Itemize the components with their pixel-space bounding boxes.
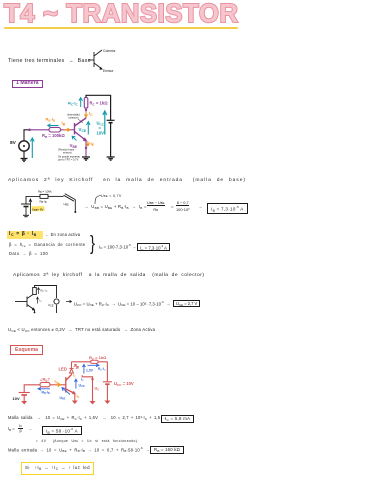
wire collector up bbox=[85, 108, 87, 118]
UBB arrow bbox=[29, 199, 32, 214]
ground middle red bbox=[90, 401, 96, 405]
intro line bbox=[8, 58, 91, 64]
battery Ucc red bbox=[103, 382, 112, 384]
boxed IB result bbox=[207, 203, 248, 214]
wire emitter down red bbox=[74, 394, 76, 401]
svg-text:UCC = 10V: UCC = 10V bbox=[114, 381, 134, 387]
svg-text:RC = 1kΩ: RC = 1kΩ bbox=[89, 355, 107, 361]
ground right red bbox=[104, 401, 110, 405]
mini transistor sketch bbox=[88, 47, 138, 75]
transistor (three terminals sketch) bbox=[88, 50, 102, 69]
arrow Ic blue top bbox=[88, 364, 100, 367]
block beta bbox=[7, 231, 43, 240]
equation 2 bbox=[74, 300, 170, 306]
title underline bbox=[4, 27, 238, 29]
bottom equation line 4 bbox=[8, 446, 150, 452]
svg-text:Colector: Colector bbox=[103, 49, 116, 53]
svg-text:IE: IE bbox=[77, 394, 80, 399]
blue arrow 1,5V bbox=[83, 364, 86, 373]
wire down right bbox=[74, 200, 76, 212]
top rail red bbox=[72, 361, 108, 363]
box 1 Manera bbox=[12, 80, 43, 89]
wire resistor to base bbox=[50, 384, 66, 386]
ground emitter bbox=[82, 157, 90, 160]
svg-text:UC: UC bbox=[95, 387, 100, 392]
svg-text:IC: IC bbox=[81, 377, 84, 382]
box Esquema bbox=[10, 345, 43, 355]
svg-text:UCE: UCE bbox=[48, 303, 54, 308]
arrow Uce blue bbox=[75, 379, 78, 388]
battery 10V left bbox=[19, 393, 30, 396]
section heading salida bbox=[13, 273, 205, 278]
svg-text:RB·IB: RB·IB bbox=[46, 117, 57, 123]
svg-text:por lo TRT ≈ 0,7V: por lo TRT ≈ 0,7V bbox=[58, 157, 79, 161]
wire top rail bbox=[86, 95, 111, 120]
svg-text:RB = 100kΩ: RB = 100kΩ bbox=[42, 133, 65, 139]
battery Ucc bbox=[107, 120, 115, 122]
svg-text:RB·IB: RB·IB bbox=[40, 200, 47, 205]
wire to resistor RB bbox=[30, 129, 50, 131]
resistor RC red bbox=[91, 360, 98, 363]
arrow IB orange red circuit bbox=[55, 383, 60, 387]
ground emitter red bbox=[72, 401, 78, 405]
svg-text:UBE: UBE bbox=[60, 396, 66, 401]
bottom equation line 2 bbox=[8, 426, 15, 431]
resistor sketch3 bbox=[33, 288, 37, 295]
svg-text:RB·IB: RB·IB bbox=[42, 391, 50, 396]
Uc measure line bbox=[82, 375, 92, 401]
svg-text:10V: 10V bbox=[13, 396, 20, 401]
svg-text:RC = 1kΩ: RC = 1kΩ bbox=[90, 101, 109, 107]
arrow Rc·Ic sketch3 bbox=[37, 288, 39, 294]
tiny note line 3 bbox=[36, 439, 139, 443]
svg-text:IB: IB bbox=[62, 121, 66, 127]
arrow right bbox=[66, 300, 71, 302]
bottom equation line 1 bbox=[8, 415, 167, 420]
svg-text:IC: IC bbox=[40, 299, 43, 304]
source to ground bbox=[56, 305, 58, 313]
arrow Rb voltage (teal, left) bbox=[48, 124, 59, 127]
source circle sketch3 bbox=[54, 299, 59, 304]
arrow Rb·Ib blue bbox=[38, 387, 50, 390]
arrow Vbe (teal, toward base) bbox=[72, 136, 76, 140]
svg-text:IE: IE bbox=[91, 141, 95, 147]
fraction 2 bbox=[176, 200, 189, 212]
ground under source bbox=[21, 159, 28, 162]
svg-text:RC·IC: RC·IC bbox=[98, 367, 106, 372]
svg-text:emisor).: emisor). bbox=[63, 150, 73, 154]
wire source to corner bbox=[24, 130, 30, 141]
node emitter bbox=[85, 147, 87, 149]
pointer line note bbox=[78, 119, 83, 123]
node collector bbox=[85, 109, 87, 111]
svg-text:UCE: UCE bbox=[79, 384, 85, 389]
transistor Q1 bbox=[75, 118, 87, 141]
node base-left junction bbox=[28, 129, 31, 132]
svg-text:VCE: VCE bbox=[79, 127, 87, 133]
svg-text:¿RB?: ¿RB? bbox=[40, 377, 51, 383]
node bottom right bbox=[74, 211, 76, 213]
current arrow IB bbox=[64, 128, 70, 131]
svg-text:10V: 10V bbox=[97, 131, 105, 136]
ground sketch2 bbox=[23, 215, 29, 216]
svg-text:colector): colector) bbox=[69, 115, 79, 119]
arrow Vce (teal up) bbox=[87, 122, 91, 135]
SKETCH 2 malla de entrada bbox=[10, 186, 80, 224]
ground right bbox=[107, 157, 115, 160]
svg-text:RC·IC: RC·IC bbox=[41, 289, 48, 294]
svg-text:RB = 100k: RB = 100k bbox=[38, 190, 52, 195]
transistor sketch3 bbox=[15, 294, 35, 311]
battery to ground bbox=[25, 207, 27, 216]
battery to ground left bbox=[23, 395, 25, 401]
svg-text:1,5V: 1,5V bbox=[86, 368, 94, 372]
svg-text:RC·IC: RC·IC bbox=[68, 101, 79, 107]
svg-text:IC: IC bbox=[73, 374, 76, 379]
battery to ground right bbox=[106, 384, 108, 400]
resistor RB bbox=[49, 127, 61, 132]
RED CIRCUIT bbox=[0, 352, 150, 408]
fraction 1 bbox=[147, 200, 165, 212]
emitter node sketch3 bbox=[34, 310, 36, 313]
diode drop UBE double stroke bbox=[64, 194, 76, 202]
equation 1 bbox=[84, 204, 147, 209]
CIRCUIT 1 bbox=[0, 90, 140, 170]
title text T4 ~ TRANSISTOR bbox=[4, 0, 244, 30]
line conclusion bbox=[8, 327, 155, 332]
ground left red bbox=[21, 401, 27, 405]
wire source to ground bbox=[23, 151, 25, 158]
final yellow box bbox=[21, 462, 94, 475]
wire resistor to base bbox=[61, 129, 75, 131]
section heading entrada bbox=[8, 178, 246, 183]
SKETCH 3 malla de salida bbox=[10, 281, 80, 319]
svg-text:8V: 8V bbox=[10, 140, 17, 146]
arrow Ic sketch3 bbox=[36, 297, 38, 303]
wire battery top bbox=[26, 196, 40, 204]
current arrow Ic bbox=[85, 112, 88, 118]
arrow Ube blue bbox=[62, 388, 70, 395]
arrow Rc voltage (teal up) bbox=[79, 98, 83, 107]
source current arrow (teal up) bbox=[30, 138, 34, 158]
resistor RB sketch bbox=[40, 194, 48, 198]
svg-text:Emisor: Emisor bbox=[103, 69, 114, 73]
right rail down bbox=[106, 362, 108, 382]
LED D1 bbox=[69, 362, 78, 375]
Uc arrowhead top bbox=[91, 379, 94, 382]
current arrow Ie bbox=[86, 141, 89, 146]
wire battery up to base rail bbox=[24, 385, 40, 393]
resistor RC bbox=[84, 98, 88, 109]
top loop wire bbox=[35, 286, 57, 299]
svg-text:UBE: UBE bbox=[64, 202, 70, 207]
transistor Q2 red bbox=[66, 375, 75, 394]
wire resistor right bbox=[48, 195, 64, 197]
wire battery to ground bbox=[110, 123, 112, 157]
arrow Ucc (teal up tall) bbox=[103, 111, 107, 135]
wire emitter down bbox=[85, 141, 87, 158]
svg-text:IC: IC bbox=[89, 111, 93, 117]
resistor RB? bbox=[40, 382, 50, 386]
UBB highlight bbox=[32, 206, 45, 211]
boxed Uce result bbox=[173, 300, 200, 307]
svg-text:UBB= 8V: UBB= 8V bbox=[32, 208, 44, 213]
svg-text:LED: LED bbox=[59, 367, 67, 372]
note ube=0,7 bbox=[93, 193, 103, 204]
voltage source V1 8V bbox=[19, 141, 29, 151]
battery UBB bbox=[21, 204, 31, 207]
